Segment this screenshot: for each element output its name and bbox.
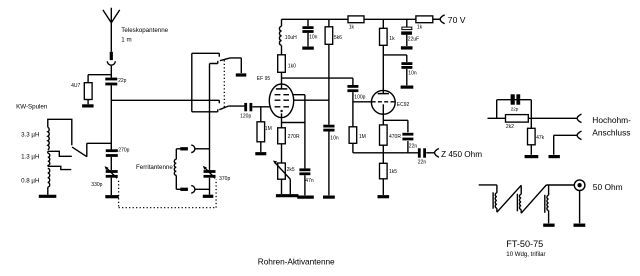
svg-text:10n: 10n — [408, 71, 417, 77]
capacitor 22p — [105, 79, 117, 84]
wire 22p down to 270p — [110, 85, 112, 149]
wire diagonal winding2 to winding3 — [521, 185, 546, 213]
svg-text:22p: 22p — [511, 106, 519, 111]
svg-text:270R: 270R — [288, 134, 300, 140]
wire 270R to pot — [281, 144, 283, 163]
connector 50 Ohm coax — [574, 180, 585, 191]
ground under 47k — [525, 155, 539, 158]
capacitor 10n rail bypass — [302, 19, 313, 46]
svg-text:5k6: 5k6 — [334, 35, 342, 41]
svg-text:470R: 470R — [389, 134, 401, 140]
wire diagonal winding1 to winding2 — [497, 185, 521, 212]
wire g2 to screen node — [294, 99, 329, 101]
capacitor 22n cathode — [402, 120, 413, 153]
svg-text:1M: 1M — [359, 134, 366, 140]
resistor 47k — [528, 118, 536, 155]
wire bottom socket to column — [195, 188, 210, 190]
tube EF95 grid g1 dash — [275, 106, 289, 108]
wire input node to resistor branch — [88, 74, 111, 76]
svg-text:Teleskopantenne: Teleskopantenne — [121, 27, 168, 34]
inductor ferrite antenna coil L2 — [174, 149, 176, 190]
variable capacitor 370p — [203, 149, 216, 178]
wire grid node down to 1M — [260, 107, 262, 122]
wire 2k5 to ground — [281, 179, 283, 194]
ground under 2k5 — [276, 194, 299, 197]
tube EC92 anode bar — [378, 93, 389, 95]
wire KW wiper to main column — [87, 142, 112, 144]
svg-text:2k5: 2k5 — [287, 167, 295, 173]
ground under 47n — [297, 196, 314, 199]
tube EF95 V1 envelope — [269, 84, 293, 118]
svg-text:100p: 100p — [354, 94, 365, 100]
svg-text:1k: 1k — [417, 24, 423, 30]
svg-text:120p: 120p — [240, 113, 251, 119]
KW band switch wiper S1 — [72, 143, 87, 156]
transformer T1 winding 2 — [517, 185, 521, 213]
svg-text:1k: 1k — [349, 25, 355, 31]
wire rail junction to 1k anode EC92 — [382, 19, 384, 28]
tube EC92 cathode wire — [382, 104, 384, 125]
wire 470R to node line — [382, 145, 384, 153]
resistor 1k5 — [380, 153, 388, 195]
variable capacitor 330p — [105, 166, 118, 178]
svg-text:47n: 47n — [305, 178, 314, 184]
wire g3 to cathode — [293, 95, 305, 123]
svg-text:50 Ohm: 50 Ohm — [593, 182, 623, 192]
ferrite top socket arc — [191, 145, 195, 152]
svg-text:0.8 µH: 0.8 µH — [21, 177, 39, 184]
ground under 4U7 — [82, 104, 94, 107]
wire 270p to 330p — [110, 157, 112, 170]
svg-text:EF 95: EF 95 — [257, 76, 271, 82]
svg-text:1.3 µH: 1.3 µH — [21, 153, 39, 160]
svg-text:Ferritantenne: Ferritantenne — [136, 164, 173, 171]
transformer T1 winding 3 — [545, 185, 549, 223]
resistor 470R cathode EC92 — [380, 125, 388, 145]
dotted gang link 330p-370p — [119, 179, 217, 207]
capacitor 22n output coupling — [419, 148, 434, 157]
ground under KW coil — [39, 195, 57, 197]
svg-text:270p: 270p — [118, 147, 129, 153]
wire 1k to EC92 anode — [382, 45, 384, 93]
ground under screen 10n — [323, 196, 335, 199]
svg-text:Rohren-Aktivantenne: Rohren-Aktivantenne — [258, 256, 335, 266]
svg-text:370p: 370p — [219, 176, 230, 182]
antenna plug (thick bar) — [110, 52, 113, 60]
wire connector to ground — [579, 191, 581, 224]
resistor 1M grid leak EF95 — [257, 122, 265, 142]
capacitor 100p coupling — [347, 78, 358, 127]
resistor 1M grid leak EC92 — [349, 127, 357, 144]
tube EF95 grid g3 dash — [275, 94, 289, 96]
wire cathode stub to g3 drop — [282, 122, 305, 124]
ferrite bottom plug bar — [176, 188, 188, 190]
svg-text:4U7: 4U7 — [71, 83, 80, 89]
capacitor 10n screen bypass — [323, 126, 334, 195]
wire socket to input node — [110, 65, 112, 78]
terminal 70V — [440, 15, 445, 24]
wire 120p to EF95 grid — [253, 106, 271, 108]
capacitor 270p — [106, 151, 118, 156]
resistor 1k0 anode EF95 — [278, 55, 286, 73]
ground under rail 10n — [302, 46, 314, 49]
svg-text:1k0: 1k0 — [288, 63, 296, 69]
svg-text:3.3 µH: 3.3 µH — [21, 131, 39, 138]
tube EF95 cathode wire — [281, 113, 283, 128]
wire RC top branch — [497, 100, 532, 119]
svg-text:22uF: 22uF — [408, 37, 419, 43]
inductor KW coil L1 (tapped) — [48, 127, 50, 194]
svg-text:10 Wdg, trifilar: 10 Wdg, trifilar — [506, 251, 545, 258]
svg-text:2k2: 2k2 — [506, 124, 514, 130]
svg-text:EC92: EC92 — [397, 102, 410, 108]
ground under 1k5 — [378, 195, 390, 198]
rotary switch S2 left vertical wire — [191, 53, 193, 112]
rotary switch pole2 wiper to 120p — [219, 106, 244, 110]
capacitor 22uF electrolytic — [401, 19, 412, 46]
wire 1M to ground — [260, 142, 262, 152]
wire coil tap 2 to contact C — [48, 166, 72, 169]
wire main antenna line to switch contact — [111, 100, 219, 103]
ground at pole1 wiper — [236, 73, 247, 76]
capacitor 22p Hochohm — [513, 94, 519, 104]
svg-text:Anschluss: Anschluss — [592, 128, 630, 138]
ferrite top plug bar — [176, 148, 188, 150]
dotted switch gang link — [223, 60, 225, 107]
wire coil top bend to switch contact A — [48, 119, 72, 145]
wire cathode stub to 22n — [383, 119, 408, 121]
potentiometer 2k5 — [273, 161, 290, 195]
wire 4U7 to ground — [87, 100, 89, 105]
wire 100p to grid — [353, 101, 372, 103]
resistor 4U7 — [84, 83, 92, 100]
transformer T1 winding 1 — [493, 192, 497, 212]
resistor 1k supply feed — [416, 16, 433, 23]
ground under winding 3 — [543, 224, 554, 227]
svg-text:Hochohm-: Hochohm- — [592, 115, 631, 125]
terminal Hochohm upper — [577, 114, 581, 123]
wire input to FT-50-75 — [479, 185, 497, 193]
resistor 2k2 — [506, 115, 529, 123]
rotary switch pole2 contact 2 wire — [192, 109, 218, 112]
svg-text:22n: 22n — [409, 144, 418, 150]
wire 1M to node line — [352, 143, 354, 153]
tube EC92 grid dash — [372, 101, 396, 103]
capacitor 120p — [246, 103, 251, 111]
wire anode node to 100p — [282, 77, 353, 79]
wire 330p to ground — [110, 178, 112, 195]
tube EF95 cathode marker dot — [281, 110, 283, 112]
rotary switch pole1 wiper to ground — [220, 58, 241, 73]
ground under 50 Ohm connector — [574, 224, 586, 227]
resistor 270R cathode EF95 — [278, 128, 286, 144]
svg-text:1 m: 1 m — [121, 36, 131, 43]
resistor 1k anode EC92 — [380, 28, 388, 45]
svg-text:1k5: 1k5 — [389, 169, 397, 175]
inductor 10uH — [279, 19, 281, 55]
wire 370p to ground — [209, 178, 211, 195]
resistor 5k6 screen dropper — [325, 19, 333, 124]
wire top socket to column — [195, 148, 210, 150]
svg-text:22p: 22p — [118, 78, 127, 84]
tube EC92 V2 envelope — [371, 90, 395, 114]
svg-text:10n: 10n — [309, 35, 318, 41]
wire Hochohm main line — [488, 117, 577, 119]
ground under 22uF — [401, 46, 413, 49]
svg-text:70 V: 70 V — [448, 15, 466, 25]
wire 1k to 70V terminal — [433, 18, 440, 20]
wire Anschluss line — [554, 135, 577, 155]
svg-text:FT-50-75: FT-50-75 — [506, 239, 543, 249]
wire HT rail — [282, 18, 440, 20]
svg-text:47k: 47k — [536, 135, 545, 141]
wire switch to ferrite antenna column — [209, 64, 211, 149]
rotary switch pole1 contact 2 wire — [210, 61, 218, 64]
terminal Hochohm lower — [577, 131, 581, 140]
svg-text:22n: 22n — [418, 159, 427, 165]
rotary switch pole1 contact 1 wire — [192, 53, 220, 57]
svg-text:10uH: 10uH — [285, 35, 297, 41]
ground under Anschluss wire — [549, 155, 560, 158]
tube EF95 anode bar — [276, 88, 287, 90]
svg-text:330p: 330p — [91, 182, 102, 188]
wire coil tap 1 to contact B — [48, 151, 72, 156]
svg-text:1M: 1M — [265, 126, 272, 132]
capacitor 47n cathode bypass — [299, 123, 310, 174]
ground under 1M — [255, 152, 266, 155]
ferrite bottom socket arc — [191, 186, 195, 193]
wire node line — [353, 152, 418, 154]
ground under 370p — [203, 195, 214, 198]
wire 1k0 to anode — [281, 72, 283, 89]
antenna ANT1 telescopic antenna symbol — [103, 8, 120, 52]
svg-text:KW-Spulen: KW-Spulen — [16, 103, 48, 110]
capacitor 10n anode bypass EC92 — [401, 55, 412, 85]
terminal Z 450 Ohm — [435, 149, 439, 158]
ground under 330p — [105, 195, 119, 198]
svg-text:Z 450 Ohm: Z 450 Ohm — [441, 150, 482, 159]
antenna socket arc — [107, 61, 115, 65]
ground under anode 10n — [401, 86, 414, 89]
svg-text:1k: 1k — [389, 36, 395, 42]
tube EF95 grid g2 dash — [275, 99, 289, 101]
wire anode stub to 10n — [383, 54, 407, 56]
wire winding3 top to 50 Ohm connector — [546, 184, 574, 186]
resistor 1k rail decoupling — [348, 16, 364, 23]
svg-text:10n: 10n — [330, 135, 339, 141]
wire 47n to ground — [304, 175, 306, 195]
